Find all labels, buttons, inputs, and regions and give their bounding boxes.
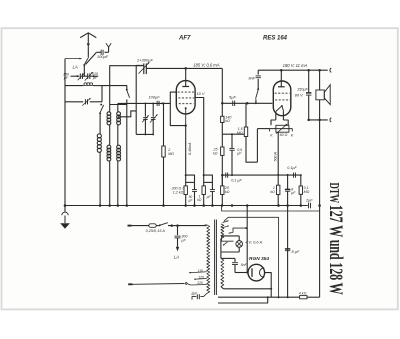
capacitor bypass — [211, 182, 213, 189]
wire — [99, 152, 101, 205]
junction — [162, 204, 165, 207]
resistor 140k — [221, 116, 224, 122]
trimmer capacitor C6 — [152, 103, 154, 116]
wire — [221, 123, 223, 148]
svg-text:kΩ: kΩ — [225, 190, 230, 194]
resistor 200R/1,2k cathode — [184, 186, 187, 195]
wire filament leg — [282, 111, 284, 120]
wire — [221, 155, 223, 186]
junction — [193, 204, 196, 207]
junction — [280, 69, 283, 72]
potentiometer 60R hum — [271, 120, 276, 125]
wire arrow to antenna node — [65, 58, 82, 60]
wire band link — [110, 104, 127, 106]
capacitor 2uF — [309, 203, 311, 209]
coil L4a IF secondary top — [117, 112, 121, 125]
svg-text:4 kΩ: 4 kΩ — [299, 291, 307, 295]
svg-text:0,25/0,15 A: 0,25/0,15 A — [146, 229, 166, 233]
svg-text:180 V; 11 mA: 180 V; 11 mA — [283, 63, 308, 68]
svg-text:kΩ: kΩ — [197, 198, 202, 202]
capacitor 100uF antenna — [101, 50, 103, 55]
trimmer capacitor C 510pF — [82, 75, 87, 77]
wire rectifier output — [224, 288, 272, 290]
svg-text:50mA: 50mA — [273, 152, 277, 162]
junction — [300, 204, 303, 207]
wire left ground rail — [64, 59, 66, 206]
svg-text:60 Ω: 60 Ω — [280, 133, 288, 137]
junction — [270, 288, 272, 290]
junction — [231, 204, 234, 207]
junction — [307, 69, 310, 72]
wire tie2 — [204, 181, 213, 183]
svg-text:LA: LA — [73, 65, 78, 70]
wire grid return to filament — [256, 129, 258, 163]
capacitor 50uF cathode — [194, 182, 196, 189]
junction — [99, 204, 102, 207]
wire B+ rail AF7 — [146, 67, 222, 69]
filament RGN354 — [251, 268, 253, 277]
wire tie1 — [186, 181, 195, 183]
wire bottom rail 2 — [218, 297, 268, 303]
svg-text:MΩ: MΩ — [237, 131, 243, 135]
grid g3 AF7 — [179, 103, 194, 105]
op: tube AF7 envelope — [176, 81, 195, 114]
svg-text:0,1µF: 0,1µF — [287, 166, 297, 170]
wire — [109, 125, 111, 145]
junction — [117, 204, 120, 207]
capacitor 8nF — [257, 70, 259, 74]
junction — [286, 204, 289, 207]
wire pot track — [270, 128, 293, 130]
transformer T1 primary — [204, 224, 207, 227]
space charge grid RES164 — [275, 99, 290, 101]
wire to RGN354 — [235, 272, 248, 274]
svg-text:185 V; 0,6 mA: 185 V; 0,6 mA — [193, 63, 219, 68]
junction — [267, 296, 269, 298]
trimmer capacitor C5 — [144, 103, 146, 116]
anode plate AF7 — [182, 86, 189, 88]
svg-text:RGN 354: RGN 354 — [249, 256, 269, 262]
connector C output top — [330, 68, 331, 72]
junction — [211, 204, 214, 207]
svg-text:1,2 kΩ: 1,2 kΩ — [173, 190, 184, 194]
wire ground bus — [65, 205, 308, 207]
svg-text:5nF: 5nF — [241, 263, 248, 267]
capacitor 300uF line filter — [177, 226, 179, 235]
wire filter cap line — [287, 191, 289, 297]
svg-text:2+300µF: 2+300µF — [136, 57, 154, 62]
trimmer capacitor C 150pF — [71, 75, 80, 77]
ground symbol — [64, 206, 66, 212]
svg-text:100µF: 100µF — [149, 95, 161, 100]
wire anode lead RES164 — [280, 70, 282, 86]
wire anode lead — [185, 68, 187, 86]
resistor 1k RES cathode — [277, 185, 280, 194]
resistor 0,1M — [300, 175, 302, 186]
switch S1 antenna — [85, 57, 89, 64]
junction — [245, 227, 247, 229]
capacitor 0,5uF — [231, 134, 233, 148]
wire — [246, 137, 257, 163]
junction — [221, 204, 224, 207]
wire heater line 1 — [222, 206, 320, 211]
junction — [126, 204, 129, 207]
wire speaker bottom — [309, 119, 328, 121]
tube RGN354 envelope — [248, 264, 265, 281]
svg-text:kΩ: kΩ — [225, 119, 230, 123]
anode RGN354 — [260, 268, 265, 277]
coil L4b IF secondary bottom — [117, 145, 121, 161]
grid g2 AF7 — [178, 97, 194, 99]
switch S3 band switch — [102, 86, 127, 90]
variable capacitor C 2+300uF — [143, 63, 145, 74]
wire bottom rail 1 — [218, 296, 300, 298]
junction — [318, 69, 321, 72]
coil L3a IF primary top — [107, 112, 111, 125]
wire lamp top — [222, 235, 240, 237]
wire to switch — [86, 53, 97, 65]
resistor 1,5M grid leak — [245, 103, 247, 127]
grid RES164 — [275, 92, 290, 94]
svg-text:5µF: 5µF — [229, 94, 237, 99]
resistor 20k — [221, 175, 223, 186]
junction — [108, 204, 111, 207]
wire — [117, 161, 119, 206]
wire column 2 to anode cap — [110, 66, 143, 112]
connector C output bottom — [330, 118, 331, 122]
variable capacitor C tuning — [65, 101, 83, 103]
wire cathode line — [185, 126, 187, 186]
antenna A2 aux input — [106, 43, 111, 47]
svg-text:2µF: 2µF — [305, 198, 313, 202]
lamp bulb — [236, 241, 243, 248]
wire — [96, 51, 101, 53]
junction — [246, 204, 249, 207]
transformer T1 secondary heater — [221, 224, 224, 239]
junction — [221, 174, 224, 177]
wire AVC line — [222, 174, 300, 176]
junction — [287, 296, 289, 298]
svg-text:LA: LA — [174, 255, 179, 260]
coil L2 oscillator — [97, 134, 101, 153]
grid return bracket — [170, 92, 185, 126]
svg-text:RES 164: RES 164 — [263, 36, 288, 42]
switch S5 mains — [159, 224, 161, 226]
mains input plug 1 — [128, 225, 132, 227]
wire lamp bottom — [222, 251, 240, 253]
resistor 25k — [221, 147, 224, 155]
wire heater center tap — [246, 206, 248, 273]
junction — [185, 124, 187, 126]
wire screen jog — [203, 174, 205, 176]
wire B+ feed riser — [319, 120, 321, 297]
wire RGN anode out — [265, 273, 272, 298]
capacitor 0,1uF output — [294, 173, 296, 178]
transformer core — [214, 220, 216, 296]
tube RES164 envelope — [273, 81, 291, 116]
svg-text:MΩ: MΩ — [304, 190, 310, 194]
capacitor 8uF electrolytic cathode — [287, 175, 289, 189]
wire heater feed — [257, 128, 269, 130]
capacitor 8uF filter lower — [285, 249, 290, 251]
junction — [300, 174, 302, 176]
junction — [184, 204, 187, 207]
wire — [126, 99, 128, 205]
coil L3b IF primary bottom — [107, 145, 111, 161]
junction — [184, 67, 187, 70]
tap arrow 2 — [223, 225, 230, 227]
svg-text:kΩ: kΩ — [213, 151, 218, 155]
wire LA switch to trimmer row — [83, 66, 85, 77]
wire — [132, 225, 149, 227]
capacitor 5uF coupling — [233, 101, 235, 106]
fuse 0,25/0,15A — [149, 224, 156, 228]
wire — [109, 161, 111, 206]
svg-text:0,46mA: 0,46mA — [188, 142, 192, 155]
svg-text:100µF: 100µF — [97, 54, 109, 59]
filament RES164 — [276, 106, 284, 112]
capacitor 150uF electrolytic — [308, 70, 310, 92]
junction — [277, 204, 280, 207]
wire — [221, 287, 224, 289]
junction — [278, 296, 280, 298]
svg-text:2µF: 2µF — [190, 291, 198, 295]
wire tuned loop right side — [101, 86, 103, 102]
wire 180V rail — [258, 69, 328, 71]
tap arrow 1 — [223, 220, 229, 222]
capacitor 100uF grid — [157, 101, 159, 106]
svg-text:kΩ: kΩ — [270, 190, 275, 194]
resistor 1k — [202, 186, 205, 195]
svg-text:80 V: 80 V — [295, 94, 303, 98]
wire grid line AF7 — [118, 102, 171, 104]
antenna A1 — [80, 33, 96, 38]
transformer T1 secondary rectifier filament — [221, 258, 224, 286]
wire — [117, 125, 119, 145]
wire heater line 2 — [224, 217, 279, 297]
grid g1 AF7 — [178, 91, 194, 93]
wire B+ corner down — [221, 68, 223, 116]
svg-text:8 µF: 8 µF — [292, 249, 300, 254]
mains input plug 2 / voltage selector — [128, 283, 132, 285]
wire column 3 top — [117, 103, 119, 111]
wire grid tap from L4 — [118, 111, 136, 117]
switch S4 tone — [257, 88, 259, 90]
svg-text:pF: pF — [63, 76, 69, 80]
wire to transformer — [168, 225, 207, 227]
wire — [307, 296, 320, 298]
svg-text:0,1 µF: 0,1 µF — [231, 178, 242, 182]
switch S2 wave change — [100, 104, 102, 106]
junction — [277, 174, 279, 176]
svg-text:10 V: 10 V — [197, 91, 205, 96]
anode plate RES164 — [278, 86, 285, 88]
svg-text:4 V; 0,6 A: 4 V; 0,6 A — [245, 239, 262, 244]
svg-text:AF7: AF7 — [178, 36, 191, 42]
wire — [99, 113, 101, 134]
resistor 4k — [300, 296, 307, 299]
junction — [318, 204, 321, 207]
svg-text:8nF: 8nF — [248, 75, 255, 80]
wire — [105, 51, 109, 53]
wire trimmer bottom — [136, 133, 154, 135]
junction — [64, 204, 67, 207]
wire padder to trimmer block — [136, 65, 144, 134]
svg-text:150µF: 150µF — [297, 87, 309, 91]
wire cathode jog — [185, 174, 187, 176]
capacitor 0,1uF AVC — [226, 173, 228, 178]
speaker — [319, 70, 321, 90]
svg-text:MΩ: MΩ — [168, 152, 174, 156]
wire coupling — [222, 102, 272, 104]
wire filament leg — [275, 111, 277, 120]
resistor 2M AGC — [163, 102, 165, 104]
wire divider jog — [222, 133, 246, 135]
wire pot center tap — [277, 132, 279, 185]
wire screen 10V — [195, 98, 204, 186]
cathode AF7 — [185, 108, 187, 126]
junction — [202, 204, 205, 207]
capacitor 5nF — [221, 257, 235, 259]
capacitor 2uF mains — [200, 293, 207, 296]
dial lamp 4V 0,6A circuit — [229, 232, 233, 234]
coil L1 antenna coil — [65, 85, 84, 87]
wire antenna stem — [87, 47, 89, 58]
wire — [220, 239, 222, 259]
